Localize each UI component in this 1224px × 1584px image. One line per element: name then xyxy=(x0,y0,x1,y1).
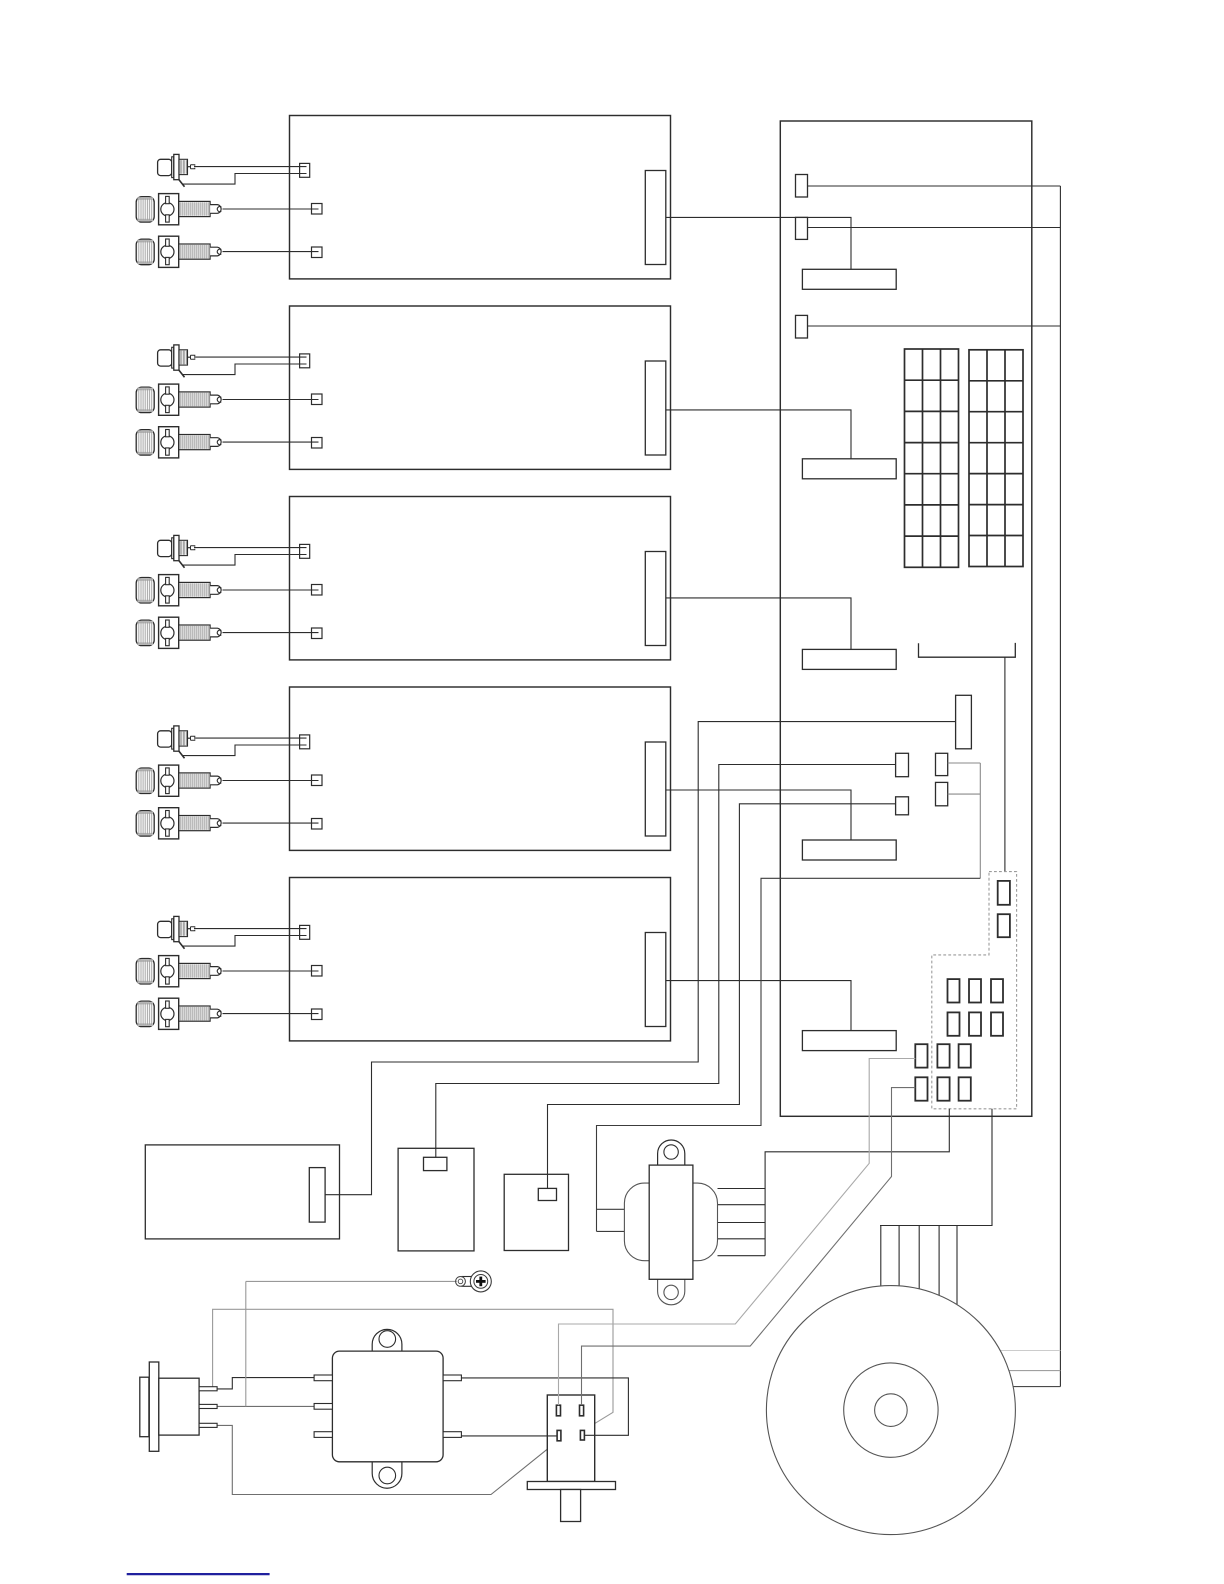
wire: CN13 to AC bus xyxy=(808,325,1061,327)
amplifier module A2 PCB xyxy=(290,306,671,469)
relay K2 on motherboard xyxy=(802,459,896,479)
pin T13 xyxy=(937,1077,949,1100)
wire: junction run to EI transformer primary xyxy=(597,878,981,1231)
wire: BP3B to pad P3B xyxy=(223,632,319,634)
wire: BP1B to pad P1B xyxy=(223,251,319,253)
wire: module A3 output to relay K3 xyxy=(666,598,851,650)
control PCB xyxy=(398,1148,474,1251)
wire: CN15 to control PCB xyxy=(436,765,896,1158)
terminal pad square P3A xyxy=(312,585,323,596)
connector CN13 xyxy=(796,315,808,338)
switch pin SW1-4 xyxy=(580,1430,584,1440)
binding post BP3A xyxy=(136,575,221,606)
output connector CN1 on module A1 xyxy=(645,171,666,265)
terminal pad square P4A xyxy=(312,775,323,786)
output connector CN4 on module A4 xyxy=(645,742,666,836)
wire: module A1 output to relay K1 xyxy=(666,217,851,269)
binding post BP1A xyxy=(136,194,221,225)
relay K3 on motherboard xyxy=(802,649,896,669)
motherboard PCB xyxy=(780,121,1032,1116)
pin T5 xyxy=(991,979,1003,1002)
wire: EMI filter to switch lower xyxy=(461,1435,557,1437)
pin T12 xyxy=(915,1077,927,1100)
wire: AC bus down right side xyxy=(1059,186,1061,1387)
wire: RCA J3 ground to J3A xyxy=(183,555,307,566)
binding post BP5B xyxy=(136,998,221,1029)
pin T4 xyxy=(969,979,981,1002)
wire: RCA J2 ground to J2A xyxy=(183,364,307,375)
wire: module A2 output to relay K2 xyxy=(666,410,851,459)
power transistor array grid G2 xyxy=(969,350,1023,567)
wire: BP4A to pad P4A xyxy=(223,780,319,782)
binding post BP1B xyxy=(136,236,221,267)
wire: BP4B to pad P4B xyxy=(223,822,319,824)
wire: RCA J4 signal to J4A xyxy=(194,737,307,739)
switch pin SW1-3 xyxy=(557,1430,561,1440)
wire: RCA J2 signal to J2A xyxy=(194,356,307,358)
terminal pad square P1A xyxy=(312,204,323,215)
wire: toroid primary lead 1 xyxy=(985,1350,1060,1352)
display PCB xyxy=(145,1145,339,1239)
wire: CN14 to display PCB xyxy=(325,722,956,1195)
amplifier module A3 PCB xyxy=(290,497,671,660)
RCA input jack J4 xyxy=(158,726,195,758)
wire: CN18 to aux PCB xyxy=(548,804,896,1189)
wire: module A5 output to relay K5 xyxy=(666,981,851,1031)
amplifier module A4 PCB xyxy=(290,687,671,850)
input connector J3A on module A3 xyxy=(300,544,310,558)
output connector CN2 on module A2 xyxy=(645,361,666,455)
pin T7 xyxy=(969,1012,981,1035)
wire: RCA J5 ground to J5A xyxy=(183,936,307,947)
pin T14 xyxy=(959,1077,971,1100)
wire: safety earth riser xyxy=(245,1281,247,1406)
wire: CN16 feed xyxy=(948,762,981,764)
wire: switch to block pin T9 xyxy=(559,1059,916,1406)
wire: BP3A to pad P3A xyxy=(223,589,319,591)
RCA input jack J1 xyxy=(158,154,195,186)
switch pin SW1-2 xyxy=(580,1405,584,1416)
terminal pad square P3B xyxy=(312,628,323,639)
ground lug and chassis screw xyxy=(456,1271,492,1292)
pin T3 xyxy=(948,979,960,1002)
wire: EI transformer primary stubs xyxy=(597,1209,625,1231)
output connector CN5 on module A5 xyxy=(645,933,666,1027)
wire: BP2A to pad P2A xyxy=(223,399,319,401)
connector CN16 xyxy=(936,753,948,775)
wire: IEC earth to EMI filter xyxy=(217,1405,316,1407)
aux PCB xyxy=(504,1174,568,1250)
input connector J4A on module A4 xyxy=(300,735,310,749)
pin T6 xyxy=(948,1012,960,1035)
binding post BP2A xyxy=(136,384,221,415)
wire: switch return to IEC live xyxy=(213,1309,613,1430)
amplifier module A1 PCB xyxy=(290,116,671,279)
RCA input jack J2 xyxy=(158,345,195,377)
IEC mains inlet xyxy=(140,1362,217,1451)
wire: safety earth to lug xyxy=(246,1280,457,1282)
EMI line filter FL1 xyxy=(314,1329,461,1488)
wire: bracket to power connector block xyxy=(1004,657,1006,871)
terminal pad square P2B xyxy=(312,438,323,449)
power transistor array grid G1 xyxy=(905,349,959,567)
RCA input jack J5 xyxy=(158,916,195,948)
connector CN17 xyxy=(936,782,948,805)
binding post BP3B xyxy=(136,617,221,648)
wire: CN12 to AC bus xyxy=(808,227,1061,229)
pin T10 xyxy=(937,1044,949,1067)
wire: RCA J4 ground to J4A xyxy=(183,745,307,756)
mounting bracket xyxy=(919,643,1016,657)
binding post BP5A xyxy=(136,956,221,987)
wire: BP5A to pad P5A xyxy=(223,970,319,972)
wire: EMI filter to switch via top run xyxy=(461,1378,628,1435)
pin T8 xyxy=(991,1012,1003,1035)
toroidal transformer T1 xyxy=(766,1286,1015,1535)
pin T2 xyxy=(998,914,1010,937)
connector CN14 xyxy=(956,695,972,749)
terminal pad square P5B xyxy=(312,1009,323,1020)
EI transformer T2 xyxy=(624,1140,717,1305)
binding post BP2B xyxy=(136,427,221,458)
connector on control PCB xyxy=(424,1157,447,1170)
wire: RCA J1 signal to J1A xyxy=(194,166,307,168)
relay K1 on motherboard xyxy=(802,269,896,289)
relay K5 on motherboard xyxy=(802,1031,896,1051)
wire: BP5B to pad P5B xyxy=(223,1013,319,1015)
connector on display PCB xyxy=(309,1168,325,1223)
connector CN12 xyxy=(796,217,808,239)
binding post BP4A xyxy=(136,765,221,796)
RCA input jack J3 xyxy=(158,535,195,567)
wire: block to rectifier bus xyxy=(765,1109,949,1256)
wire: EI transformer secondary leads xyxy=(718,1189,766,1256)
switch pin SW1-1 xyxy=(556,1405,560,1416)
input connector J2A on module A2 xyxy=(300,354,310,368)
connector CN11 xyxy=(796,175,808,198)
output connector CN3 on module A3 xyxy=(645,552,666,646)
pin T1 xyxy=(998,881,1010,905)
terminal pad square P2A xyxy=(312,394,323,405)
binding post BP4B xyxy=(136,808,221,839)
wire: toroid primary lead 2 xyxy=(985,1370,1060,1372)
footer hyperlink underline xyxy=(127,1573,270,1575)
terminal pad square P1B xyxy=(312,247,323,258)
amplifier module A5 PCB xyxy=(290,878,671,1041)
wire: toroid secondary drops xyxy=(881,1226,957,1311)
pin T11 xyxy=(959,1044,971,1067)
wire: switch to block pin T12 xyxy=(582,1088,916,1406)
wire: BP1A to pad P1A xyxy=(223,208,319,210)
wire: IEC neutral under chassis to switch xyxy=(217,1425,558,1494)
pin T9 xyxy=(915,1044,927,1067)
wire: CN16 down to junction xyxy=(979,763,981,878)
wire: block to toroid bus xyxy=(880,1109,992,1226)
terminal pad square P5A xyxy=(312,966,323,977)
wire: toroid primary lead 3 xyxy=(985,1386,1060,1388)
power switch SW1 xyxy=(527,1395,615,1522)
wire: CN17 stub xyxy=(948,793,981,795)
input connector J1A on module A1 xyxy=(300,163,310,177)
wire: CN11 to AC bus xyxy=(808,185,1061,187)
wire: RCA J3 signal to J3A xyxy=(194,547,307,549)
power connector block (dashed outline) xyxy=(932,872,1017,1109)
wire: RCA J1 ground to J1A xyxy=(183,174,307,185)
wire: BP2B to pad P2B xyxy=(223,441,319,443)
terminal pad square P4B xyxy=(312,819,323,830)
wire: module A4 output to relay K4 xyxy=(666,790,851,840)
wire: IEC live to EMI filter xyxy=(217,1378,316,1389)
input connector J5A on module A5 xyxy=(300,925,310,939)
connector CN15 xyxy=(896,753,909,776)
relay K4 on motherboard xyxy=(802,840,896,860)
connector on aux PCB xyxy=(538,1188,556,1200)
connector CN18 xyxy=(896,797,909,815)
wire: RCA J5 signal to J5A xyxy=(194,928,307,930)
